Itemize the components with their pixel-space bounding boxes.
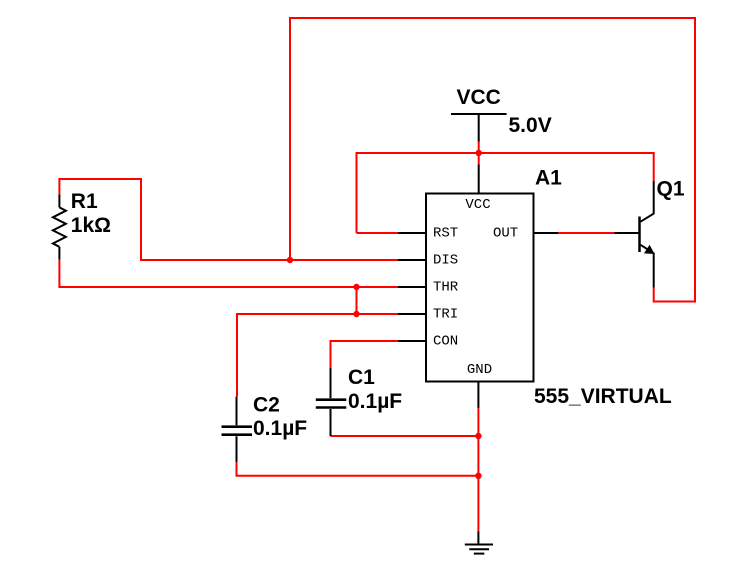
svg-text:1kΩ: 1kΩ: [71, 214, 111, 237]
resistor R1: [53, 195, 66, 260]
wire: OUT pin to Q1 base: [558, 232, 615, 234]
svg-text:0.1µF: 0.1µF: [253, 417, 307, 440]
wire: VCC rail from RST up and across to Q1 collector: [357, 153, 654, 233]
wire: GND pin down to ground symbol: [477, 408, 479, 532]
node: C2 ground junction: [475, 473, 481, 479]
wire: TRI pin to C2 top: [237, 314, 398, 397]
svg-text:R1: R1: [71, 190, 98, 213]
svg-text:C2: C2: [253, 393, 280, 416]
op-amp U1: 555 timer box A1: [398, 165, 558, 409]
svg-text:CON: CON: [433, 334, 458, 350]
wire: VCC symbol to IC VCC pin: [478, 142, 480, 165]
svg-text:C1: C1: [348, 366, 375, 389]
node: VCC rail junction: [476, 150, 482, 156]
svg-text:VCC: VCC: [457, 86, 501, 109]
collector lead: [641, 181, 654, 222]
wire: R1 top to DIS pin: [59, 179, 398, 260]
svg-text:RST: RST: [433, 226, 458, 242]
wire: RST pin red segment: [357, 232, 399, 234]
capacitor C2: [222, 397, 253, 462]
emitter arrow: [644, 245, 655, 254]
wire: R1 bottom to THR pin: [59, 260, 398, 287]
svg-text:DIS: DIS: [433, 253, 458, 269]
pin OUT stub: [534, 232, 559, 234]
wire: C2 bottom to ground net: [237, 462, 479, 476]
node: TRI junction: [353, 311, 359, 317]
pin CON stub: [398, 340, 426, 342]
node: DIS junction: [287, 257, 293, 263]
emitter lead: [641, 245, 654, 288]
capacitor C1: [316, 368, 347, 436]
svg-text:Q1: Q1: [657, 177, 685, 200]
svg-text:TRI: TRI: [433, 307, 458, 323]
svg-text:555_VIRTUAL: 555_VIRTUAL: [534, 385, 672, 408]
base lead: [615, 232, 640, 234]
svg-text:GND: GND: [467, 362, 492, 378]
pin RST stub: [398, 232, 426, 234]
wire: C1 bottom to ground net: [331, 435, 479, 437]
pin TRI stub: [398, 313, 426, 315]
base bar: [638, 217, 641, 253]
node: THR junction: [353, 284, 359, 290]
pin VCC stub: [478, 165, 480, 195]
svg-text:0.1µF: 0.1µF: [348, 390, 402, 413]
pin THR stub: [398, 286, 426, 288]
transistor Q1: [615, 181, 654, 288]
wire: CON pin to C1 top: [331, 341, 399, 368]
node: C1 ground junction: [475, 433, 481, 439]
svg-text:THR: THR: [433, 280, 459, 296]
svg-text:A1: A1: [535, 167, 562, 190]
wire: big loop R1/DIS node to Q1 emitter (top of page): [290, 18, 695, 302]
power VCC symbol: [451, 114, 507, 142]
ground: [465, 532, 493, 554]
pin GND stub: [477, 382, 479, 409]
svg-text:OUT: OUT: [493, 226, 518, 242]
svg-text:5.0V: 5.0V: [509, 114, 552, 137]
pin DIS stub: [398, 259, 426, 261]
svg-text:VCC: VCC: [465, 197, 490, 213]
wire: THR to TRI vertical link: [356, 287, 358, 314]
